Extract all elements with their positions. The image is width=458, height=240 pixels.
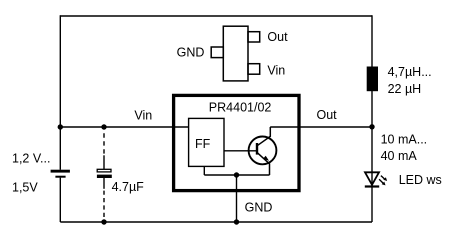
inductor L1 body	[367, 67, 378, 92]
node: junction IC GND on bottom rail	[234, 219, 239, 224]
wire: Vin net (battery to IC)	[60, 126, 188, 128]
node: junction battery/Vin	[58, 124, 63, 129]
wire: left rail lower (battery to bottom)	[59, 178, 61, 222]
wire: left rail upper (to battery)	[59, 15, 61, 169]
LED D1 cathode bar	[365, 185, 379, 187]
SOT-23 pin GND (left)	[211, 47, 223, 58]
svg-text:FF: FF	[195, 137, 211, 151]
svg-text:Vin: Vin	[267, 64, 285, 78]
wire: FF bottom to internal GND node	[203, 166, 205, 175]
svg-text:Vin: Vin	[134, 109, 152, 123]
capacitor C1 bottom plate	[97, 175, 112, 178]
node: internal emitter/FF/GND junction	[234, 172, 239, 177]
wire: capacitor dashed lead top	[103, 133, 105, 156]
svg-text:LED ws: LED ws	[399, 173, 442, 187]
wire: internal GND horizontal	[204, 174, 269, 176]
battery BT1 long plate	[51, 170, 70, 173]
wire: outer top rail	[60, 15, 372, 17]
svg-text:10 mA...: 10 mA...	[381, 132, 428, 146]
capacitor C1 top plate	[97, 169, 111, 172]
svg-text:GND: GND	[177, 46, 205, 60]
wire: FF output to transistor base	[224, 150, 256, 152]
flip-flop FF box	[189, 118, 224, 166]
wire: capacitor dashed lead bottom	[103, 191, 105, 220]
transistor Q1 emitter arrowhead	[263, 156, 269, 161]
SOT-23 package body	[223, 26, 248, 81]
wire: capacitor solid lead bottom	[103, 178, 105, 189]
svg-text:4.7µF: 4.7µF	[112, 180, 145, 194]
transistor Q1 circle	[249, 137, 277, 165]
svg-text:40 mA: 40 mA	[381, 149, 418, 163]
node: junction capacitor bottom on GND rail	[101, 219, 106, 224]
svg-text:1,2 V...: 1,2 V...	[12, 151, 50, 165]
svg-text:4,7µH...: 4,7µH...	[388, 65, 432, 79]
LED D1 emission arrow upper	[381, 176, 385, 180]
node: junction capacitor top on Vin	[101, 124, 106, 129]
svg-text:Out: Out	[267, 30, 288, 44]
transistor Q1 collector stroke	[257, 127, 270, 146]
battery BT1 short plate	[55, 176, 65, 178]
node: junction Out/right rail	[369, 124, 374, 129]
svg-text:22 µH: 22 µH	[388, 82, 422, 96]
LED D1 triangle	[365, 172, 379, 185]
wire: IC GND pin down to bottom rail	[236, 175, 238, 222]
wire: right rail (through inductor and LED)	[371, 15, 373, 222]
LED D1 emission arrow lower	[379, 179, 383, 183]
svg-text:GND: GND	[245, 201, 273, 215]
IC U1 PR4401 block outline	[174, 95, 299, 190]
svg-text:1,5V: 1,5V	[12, 180, 38, 194]
wire: Out net (IC to inductor/LED rail)	[270, 126, 372, 128]
svg-text:Out: Out	[317, 108, 338, 122]
wire: capacitor solid lead top	[103, 155, 105, 169]
transistor Q1 emitter stroke with arrow	[257, 152, 270, 175]
svg-text:PR4401/02: PR4401/02	[209, 100, 272, 114]
wire: bottom GND rail	[60, 221, 372, 223]
SOT-23 pin Vin (right bottom)	[248, 64, 260, 74]
SOT-23 pin Out (right top)	[248, 32, 260, 42]
transistor Q1 base bar	[256, 143, 258, 155]
